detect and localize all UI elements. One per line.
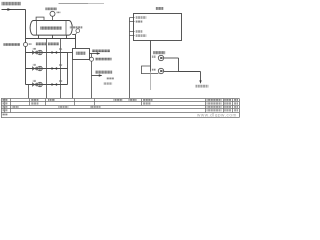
table cell text c3 <box>90 106 101 108</box>
mark motor row3 <box>33 80 36 82</box>
wire sump riser <box>178 58 180 72</box>
label pump group right <box>48 42 59 45</box>
label stabilizer <box>76 52 86 55</box>
label LT tag <box>28 43 31 45</box>
table right border <box>238 99 240 118</box>
sump pump SP2 <box>158 68 163 73</box>
table col d <box>45 99 47 106</box>
table cell text g1 <box>224 99 231 101</box>
valve V21 <box>32 67 34 70</box>
label tank name <box>40 26 62 29</box>
svg-text:P1: P1 <box>59 47 63 51</box>
tank T1 vessel <box>30 21 72 36</box>
wire signal stub 4 <box>130 35 135 37</box>
wire tank outlet nozzle <box>72 34 75 36</box>
title block <box>1 99 239 118</box>
check valve row1 <box>52 51 55 54</box>
pressure sensor PT2 <box>90 57 94 61</box>
wire below suction header <box>28 85 30 99</box>
wire row1 <box>26 52 68 54</box>
label air vent <box>70 26 83 28</box>
table row label r3 <box>2 106 8 108</box>
table cell text f4 <box>207 109 222 111</box>
table col b <box>10 99 12 113</box>
manhole nozzle <box>36 17 44 20</box>
label branch mains <box>95 71 112 74</box>
svg-text:www.dlqpw.com: www.dlqpw.com <box>197 112 237 117</box>
label to outdoor sewer <box>196 85 209 88</box>
pump B1 <box>38 50 43 55</box>
leader line top annotation <box>59 3 89 5</box>
pump branch row 2 <box>26 63 68 71</box>
table col c <box>29 99 31 106</box>
table cell text g4 <box>224 109 231 111</box>
valve row1 discharge <box>54 51 57 54</box>
table cell text h3 <box>234 106 238 108</box>
arrow branch <box>99 74 102 76</box>
table cell text e1 <box>143 99 153 101</box>
pump branch row 1 <box>26 47 68 55</box>
label sensor tag <box>56 11 60 13</box>
table col j <box>231 99 233 113</box>
riser left <box>46 39 48 99</box>
table bottom line <box>1 117 239 119</box>
table cell text c1 <box>12 106 19 108</box>
wire below stabilizer <box>72 60 74 99</box>
pump branch row 3 <box>26 79 68 87</box>
valve row2 discharge <box>54 67 57 70</box>
air vent valve body <box>76 29 80 33</box>
wire row3 <box>26 84 68 86</box>
table line 5 <box>1 112 239 114</box>
arrow outlet <box>97 52 100 54</box>
wire suction header lower <box>25 47 27 85</box>
pump B3 <box>38 82 43 87</box>
arrow sump outfall <box>199 80 201 83</box>
table cell text h1 <box>234 99 238 101</box>
label signal 1 <box>136 16 147 18</box>
svg-text:P2: P2 <box>59 63 63 67</box>
label signal 3 <box>136 30 143 32</box>
wire row2 <box>26 68 68 70</box>
valve row3 discharge <box>54 83 57 86</box>
valve V11 <box>32 51 34 54</box>
wire outlet drop lower <box>91 61 93 98</box>
tank head seam right <box>65 21 67 35</box>
check valve row2 <box>52 67 55 70</box>
table col h <box>204 99 206 113</box>
arrow on supply pipe <box>7 8 11 11</box>
label inlet city water supply main <box>2 2 22 5</box>
table cell text h4 <box>234 109 238 111</box>
label DN note 2 <box>103 82 112 84</box>
wire pump1 out <box>164 57 179 59</box>
mark motor row2 <box>33 64 36 66</box>
table col i <box>223 99 225 113</box>
wire row1 to stabilizer <box>68 52 73 54</box>
table cell text c2 <box>58 106 68 108</box>
table cell text e2 <box>143 102 151 104</box>
wire tank sensor stub <box>52 16 54 20</box>
sump pump SP1 <box>158 55 163 60</box>
label sump pumps <box>153 51 165 54</box>
table col f <box>93 99 95 106</box>
table top line <box>1 98 239 100</box>
check valve row3 <box>52 83 55 86</box>
control cabinet U2 <box>134 14 182 41</box>
label pressure sensor <box>95 58 111 61</box>
wire branch to irrigation <box>92 75 102 77</box>
air vent valve stub <box>76 33 77 35</box>
label tank sensor <box>45 8 56 11</box>
label DN note 1 <box>107 77 114 79</box>
table cell text h2 <box>234 102 238 104</box>
wire tank bottom manifold <box>26 38 76 40</box>
label signal 2 <box>136 20 143 22</box>
wire pump2 feed jog <box>142 66 159 74</box>
table col g <box>141 99 143 106</box>
table col a <box>4 99 6 113</box>
table left border <box>0 99 2 118</box>
table cell text b1 <box>31 102 38 104</box>
mark motor row1 <box>33 48 36 50</box>
table cell text g2 <box>224 102 231 104</box>
wire signal stub 3 <box>130 31 135 33</box>
table line 4 <box>1 108 239 110</box>
table row label r1 <box>2 99 8 101</box>
wire signal stub 2 <box>130 21 135 23</box>
table row label r2 <box>2 102 8 104</box>
wire sump drop <box>200 72 202 83</box>
label 2# <box>152 69 156 71</box>
label 1# <box>152 56 156 58</box>
table cell text f1 <box>207 99 222 101</box>
table cell text f3 <box>207 106 222 108</box>
level sensor LT1 <box>24 43 28 47</box>
table line 2 <box>1 101 239 103</box>
table row label r4 <box>2 109 8 111</box>
table cell text d2 <box>129 99 137 101</box>
wire tank leg 2 <box>52 35 54 38</box>
label to user mains <box>92 49 110 52</box>
pressure sensor PT1 on tank <box>50 11 55 16</box>
svg-text:P3: P3 <box>59 79 63 83</box>
tank head seam left <box>36 21 38 35</box>
pump B2 <box>38 66 43 71</box>
label level sensor <box>4 43 21 46</box>
wire supply pipe <box>2 9 26 11</box>
valve V31 <box>32 83 34 86</box>
table cell text d1 <box>114 99 123 101</box>
label cabinet title <box>156 7 164 10</box>
wire pump2 out <box>164 71 179 73</box>
wire tank leg 3 <box>66 35 68 38</box>
wire outlet drop upper <box>91 54 93 58</box>
wire outlet to users <box>89 53 100 55</box>
wire cabinet to sump pumps <box>150 40 152 71</box>
table cell text f2 <box>207 102 222 104</box>
wire tank leg 1 <box>38 35 40 38</box>
table cell text g3 <box>224 106 231 108</box>
label pump group left <box>36 42 47 45</box>
riser right <box>60 39 62 99</box>
table cell text a1 <box>31 99 38 101</box>
table row label r5 <box>2 113 8 115</box>
wire sump pit lead <box>150 72 152 91</box>
wire signal stub 1 <box>130 17 135 19</box>
wire suction header upper <box>25 10 27 43</box>
table line 3 <box>1 105 239 107</box>
table col e <box>74 99 76 106</box>
wire discharge header <box>67 53 69 85</box>
flow stabilizer box U1 <box>73 49 90 60</box>
wire sump discharge <box>179 71 201 73</box>
table cell text a2 <box>48 99 55 101</box>
wire downcomer to stabilizer <box>75 35 77 49</box>
label signal 4 <box>136 34 147 36</box>
wire signal trunk <box>129 18 131 99</box>
